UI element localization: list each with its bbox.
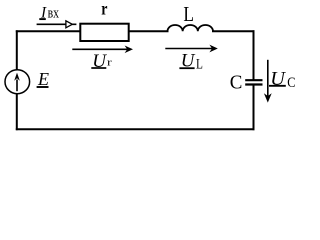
svg-text:C: C [230, 72, 243, 94]
wire right vertical lower [253, 85, 255, 130]
input current open arrowhead [66, 21, 72, 28]
underline of U_r [91, 67, 106, 69]
svg-text:r: r [101, 0, 107, 19]
voltage arrow U_C (down) [267, 60, 269, 97]
source E arrow shaft [16, 80, 18, 92]
inductor L coil [168, 25, 214, 31]
svg-text:C: C [287, 75, 295, 91]
wire right vertical upper [253, 30, 255, 80]
svg-text:E: E [37, 69, 49, 89]
underline of I [39, 18, 46, 20]
svg-text:r: r [107, 57, 112, 69]
underline of U_C [269, 85, 286, 87]
svg-text:вх: вх [48, 6, 60, 22]
capacitor C top plate [245, 79, 262, 81]
voltage arrow U_L [165, 48, 212, 50]
input current arrow shaft [37, 23, 77, 25]
wire bottom horizontal [16, 128, 255, 130]
wire left vertical upper [16, 30, 18, 70]
svg-text:L: L [183, 2, 194, 26]
source E arrowhead [14, 73, 20, 81]
wire top-left horizontal [16, 30, 81, 32]
underline of U_L [179, 67, 194, 69]
svg-text:L: L [196, 57, 203, 73]
svg-text:U: U [270, 68, 286, 90]
voltage arrow U_r [72, 48, 127, 50]
wire left vertical lower [16, 93, 18, 130]
wire top-middle horizontal [128, 30, 169, 32]
capacitor C bottom plate [245, 83, 262, 85]
source E circle [5, 70, 30, 94]
underline of E [37, 86, 49, 88]
wire top-right horizontal [212, 30, 255, 32]
resistor r box [80, 24, 128, 41]
